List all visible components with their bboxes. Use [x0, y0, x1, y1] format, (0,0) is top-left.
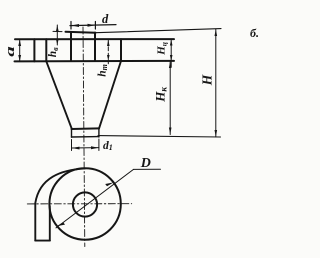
svg-text:a: a — [3, 46, 17, 57]
svg-text:D: D — [140, 156, 151, 171]
dust outlet right wall — [98, 128, 100, 137]
flange top line — [15, 38, 174, 40]
d extension tick right — [94, 22, 96, 30]
hv tick — [53, 30, 62, 32]
svg-text:hт: hт — [96, 64, 109, 77]
hv arrow top — [56, 25, 59, 31]
cylinder left wall — [45, 39, 47, 61]
centerline vertical axis — [83, 27, 85, 247]
svg-text:hв: hв — [47, 47, 60, 57]
svg-text:d: d — [102, 12, 109, 26]
inner circle exhaust tube — [73, 192, 97, 216]
D arrow upper-right — [105, 182, 114, 186]
d1 dimension line — [72, 147, 99, 149]
hv arrow bottom — [56, 39, 59, 44]
volute spiral casing — [35, 168, 85, 240]
svg-text:Нк: Нк — [153, 87, 169, 103]
svg-text:Н: Н — [199, 74, 214, 86]
D dimension diagonal line — [56, 169, 134, 228]
body bottom line — [15, 60, 175, 63]
tube left wall — [70, 32, 72, 61]
cylinder right wall — [120, 39, 122, 61]
Hk arrow up — [169, 61, 172, 68]
dust outlet rect bottom — [72, 136, 99, 138]
H dimension line — [215, 29, 217, 137]
exhaust tube top — [66, 31, 96, 34]
ht arrow down — [107, 55, 110, 61]
dust outlet rect top — [72, 127, 99, 130]
hv dimension line — [56, 25, 58, 45]
top reference line to H — [96, 29, 222, 33]
Hc dimension line — [170, 39, 172, 61]
casing left edge — [33, 39, 35, 61]
d arrow left — [71, 24, 79, 27]
d1 extension right — [98, 139, 100, 151]
a arrow top — [18, 40, 21, 46]
a arrow bottom — [18, 55, 21, 61]
D leader horizontal — [134, 168, 161, 170]
dimension d line — [70, 25, 116, 26]
inlet duct bottom — [35, 240, 50, 242]
d1 arrow right — [91, 146, 99, 149]
Hk dimension line — [169, 61, 171, 134]
ht arrow up — [107, 40, 110, 46]
svg-text:б.: б. — [250, 26, 259, 40]
tube right wall — [94, 33, 96, 61]
D arrow lower-left — [57, 222, 66, 226]
a dimension line — [19, 40, 21, 62]
d extension tick left — [70, 22, 72, 30]
horizontal centerline of volute — [27, 203, 131, 205]
d arrow right — [88, 24, 96, 27]
Hk arrow down — [169, 128, 172, 135]
d1 arrow left — [72, 147, 80, 150]
H arrow down — [215, 130, 218, 137]
inlet duct right edge — [49, 206, 51, 241]
dust outlet left wall — [71, 129, 73, 138]
ht dimension line dashed — [107, 40, 109, 64]
bottom reference line to H — [98, 136, 221, 137]
svg-text:Нц: Нц — [156, 42, 169, 56]
d1 extension left — [71, 140, 73, 151]
outer circle of volute top view — [49, 168, 120, 239]
cone right edge — [99, 61, 121, 129]
Hc arrow down — [170, 55, 173, 61]
svg-text:d1: d1 — [103, 140, 113, 152]
Hc arrow up — [170, 39, 173, 45]
H arrow up — [215, 29, 218, 36]
cone left edge — [46, 61, 71, 128]
